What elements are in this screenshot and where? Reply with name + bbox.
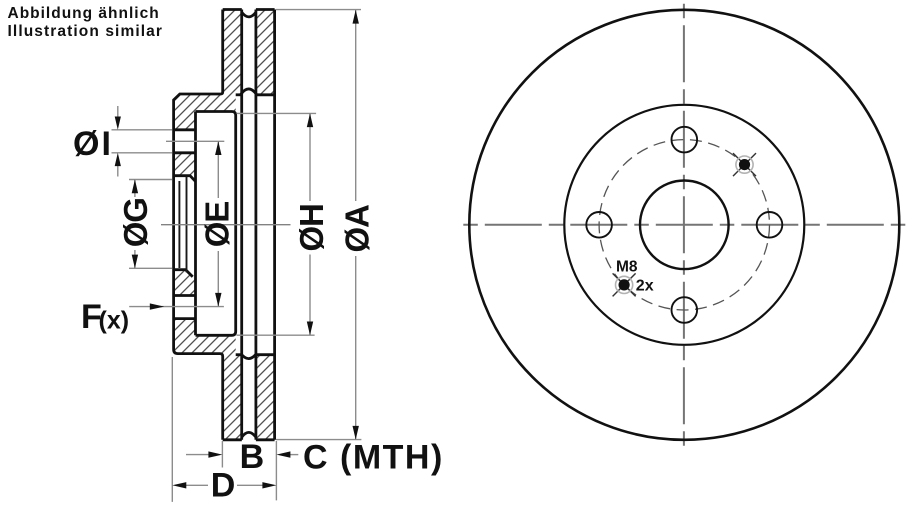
thread hole F top edge xyxy=(174,294,196,297)
hatch fill: right plate top block xyxy=(256,10,275,95)
bore step line 2 xyxy=(186,177,188,273)
bolt hole right xyxy=(757,212,783,238)
vertical centerline xyxy=(683,3,685,448)
horizontal centerline xyxy=(461,224,908,226)
svg-text:D: D xyxy=(211,466,236,504)
header note xyxy=(8,5,164,40)
dimension G extension lines xyxy=(129,180,172,269)
dimension G line and arrows xyxy=(134,180,136,269)
hat outer boundary xyxy=(174,10,223,440)
bore bottom edge with chamfer xyxy=(174,270,193,277)
hole F axis / E extension bottom / F leader xyxy=(129,306,224,308)
outer circle xyxy=(469,10,899,440)
thread hole F bottom edge xyxy=(174,317,196,320)
plate inner step top edge xyxy=(236,93,242,96)
plate inner step bottom edge xyxy=(236,353,242,356)
hatch fill: lower hat web + lower left plate xyxy=(174,319,242,440)
svg-text:M8: M8 xyxy=(616,258,638,275)
dimension B line left arrow xyxy=(186,454,209,456)
svg-text:C (MTH): C (MTH) xyxy=(303,438,444,476)
vent arch lower xyxy=(241,353,257,358)
svg-text:ØG: ØG xyxy=(117,198,154,247)
dimension E line and arrows xyxy=(217,141,219,306)
F leader arrowhead xyxy=(150,303,165,309)
dimension D line and arrows xyxy=(186,484,263,486)
svg-text:ØH: ØH xyxy=(293,204,330,251)
dimension D extension line xyxy=(171,357,173,502)
disc outer face edge xyxy=(273,10,276,440)
svg-text:2x: 2x xyxy=(636,277,654,294)
dimension H line and arrows xyxy=(309,113,311,335)
right plate friction inner edge top xyxy=(256,93,275,96)
hatch fill: hat wall block between hole I and bore xyxy=(174,153,196,182)
right plate friction inner edge bottom xyxy=(256,353,275,356)
vent slot left edge xyxy=(240,10,243,440)
bolt hole I bottom edge xyxy=(174,151,196,154)
right plate bottom edge xyxy=(256,438,275,441)
bolt hole top xyxy=(672,127,698,153)
dimension I line and arrows xyxy=(117,106,119,177)
hatch fill: hat flange + upper left plate xyxy=(174,10,242,130)
bolt circle (dashed) xyxy=(599,140,769,310)
bore step line 1 xyxy=(178,181,180,268)
left plate bottom edge xyxy=(223,438,242,441)
dimension A line and arrows xyxy=(355,10,357,440)
thread hole M8 lower left xyxy=(613,273,636,296)
svg-text:Illustration similar: Illustration similar xyxy=(8,23,164,40)
hole I axis / E extension top xyxy=(166,140,224,142)
hat wall inner edge xyxy=(194,112,197,336)
vent slot right edge xyxy=(254,10,257,440)
vent closed end top xyxy=(242,12,256,17)
thread hole M8 upper right xyxy=(733,153,756,176)
hatch fill: hat wall block below bore xyxy=(174,270,196,296)
svg-text:(x): (x) xyxy=(99,306,130,334)
svg-text:ØE: ØE xyxy=(198,202,235,247)
bore top edge with chamfer xyxy=(174,176,196,182)
right plate top edge xyxy=(256,8,275,11)
dimension B right arrow / C leader xyxy=(290,454,298,456)
svg-text:B: B xyxy=(240,438,265,476)
bolt hole bottom xyxy=(672,297,698,323)
dimension H extension lines xyxy=(237,113,317,335)
section centerline xyxy=(161,224,291,226)
svg-text:ØI: ØI xyxy=(73,125,113,163)
bolt hole left xyxy=(586,212,612,238)
vent arch upper xyxy=(241,89,257,95)
dimension A extension lines xyxy=(276,10,361,440)
svg-text:ØA: ØA xyxy=(339,205,376,252)
svg-text:Abbildung ähnlich: Abbildung ähnlich xyxy=(8,5,160,22)
vent closed end bottom xyxy=(242,432,256,437)
dimension B extension lines xyxy=(222,441,276,500)
hat pocket boundary xyxy=(196,112,236,336)
hatch fill: right plate bottom block xyxy=(256,355,275,440)
hat outer circle xyxy=(564,105,804,345)
center bore circle xyxy=(640,181,729,270)
dimension I extension lines xyxy=(112,130,173,153)
bolt hole I top edge xyxy=(174,128,196,131)
left plate top edge xyxy=(223,8,242,11)
